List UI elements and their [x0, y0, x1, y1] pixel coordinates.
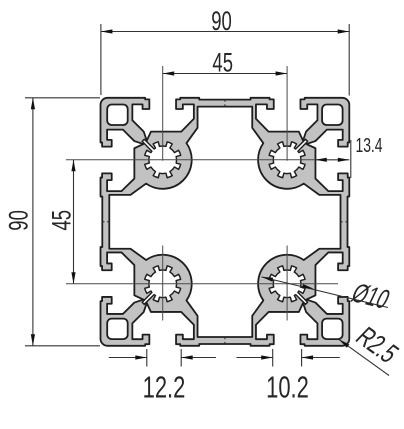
svg-text:45: 45 [212, 47, 233, 77]
svg-text:90: 90 [3, 210, 33, 231]
svg-text:10.2: 10.2 [266, 370, 309, 404]
svg-text:13.4: 13.4 [355, 133, 382, 156]
svg-text:90: 90 [211, 6, 232, 36]
svg-text:45: 45 [46, 210, 76, 231]
svg-text:12.2: 12.2 [143, 370, 186, 404]
